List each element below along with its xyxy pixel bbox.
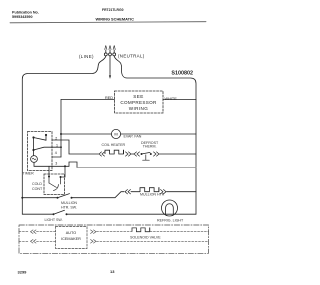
timer contact node a — [32, 136, 34, 138]
svg-text:TIMER: TIMER — [23, 171, 35, 175]
wire timer motor lead — [34, 162, 52, 166]
power cord plug prong GROUND — [109, 46, 112, 56]
connector chevrons defrost row left — [99, 152, 105, 156]
cold control box — [44, 174, 65, 195]
wire — [37, 240, 56, 242]
connector chevrons row B left — [31, 240, 37, 244]
cold control switch mechanism — [49, 177, 61, 191]
wire neutral return long run — [77, 167, 196, 169]
svg-text:3299: 3299 — [18, 270, 28, 275]
wire light row — [22, 213, 53, 215]
wire — [132, 153, 135, 155]
icemaker option boundary box — [19, 225, 209, 253]
timer contact node b — [45, 134, 47, 136]
solenoid valve coil — [132, 228, 150, 232]
wire compressor row right — [163, 99, 196, 101]
wire neutral return jog — [65, 162, 77, 168]
timer contact node c — [32, 149, 34, 151]
svg-text:(LINE): (LINE) — [79, 54, 94, 59]
svg-text:5995343590: 5995343590 — [12, 15, 33, 19]
wire cold control left riser — [48, 166, 50, 176]
svg-text:EVAP. FAN: EVAP. FAN — [124, 135, 142, 139]
wire compressor feed vertical — [60, 100, 62, 158]
svg-text:ICEMAKER: ICEMAKER — [61, 237, 81, 241]
svg-text:THERM.: THERM. — [143, 144, 157, 148]
svg-text:WIRING SCHEMATIC: WIRING SCHEMATIC — [96, 17, 135, 22]
light switch — [53, 210, 68, 215]
svg-text:SOLENOID VALVE: SOLENOID VALVE — [130, 236, 161, 240]
connector chevrons row A right — [91, 230, 97, 234]
svg-text:3: 3 — [55, 161, 57, 165]
wire timer terminal 1 internal — [34, 147, 53, 150]
wire terminal 1 stub — [52, 146, 61, 148]
svg-text:COLD: COLD — [32, 182, 42, 186]
compressor box — [115, 91, 164, 113]
svg-text:CONT: CONT — [32, 187, 43, 191]
svg-text:COMPRESSOR: COMPRESSOR — [120, 100, 157, 105]
wire terminal 2 to defrost heater — [52, 140, 99, 154]
wire defrost row right — [160, 153, 197, 155]
wire NEUTRAL rail and right bus — [114, 56, 196, 214]
evap fan motor M1 — [111, 129, 120, 138]
wire — [131, 191, 140, 193]
wire mullion row right — [167, 191, 197, 193]
wire icemaker row A right — [150, 231, 209, 233]
node junction cold control tap — [64, 165, 66, 167]
wire timer internal stub — [45, 135, 47, 140]
svg-text:M: M — [114, 132, 117, 137]
wire terminal 3 row — [52, 165, 65, 167]
publication number text — [12, 10, 39, 18]
svg-text:Publication No.: Publication No. — [12, 10, 39, 14]
node junction terminal 1 — [60, 146, 62, 148]
connector chevrons defrost row right — [154, 152, 160, 156]
wire icemaker row A left — [19, 231, 29, 233]
wire light row right — [67, 213, 197, 215]
header rule — [10, 22, 206, 23]
wire terminal 4 stub — [52, 156, 61, 158]
power cord plug prong NEUTRAL — [113, 46, 116, 56]
mullion heater switch — [57, 194, 73, 199]
label COLD CONT — [32, 182, 43, 191]
wire LINE rail and left bus — [22, 56, 106, 214]
svg-text:LIGHT SW.: LIGHT SW. — [45, 218, 63, 222]
svg-text:13: 13 — [110, 269, 115, 274]
refrigerator lamp — [162, 200, 178, 216]
node junction evap fan tap — [60, 133, 62, 135]
wire — [37, 231, 56, 233]
wire icemaker row B right — [97, 240, 209, 242]
timer motor M2 — [31, 156, 38, 163]
cold control contact right — [60, 176, 62, 178]
connector chevrons after heater — [126, 152, 132, 156]
wire cold control right riser — [61, 166, 66, 177]
svg-text:FRT21TLRG0: FRT21TLRG0 — [102, 8, 124, 12]
wire mullion row middle — [72, 192, 125, 198]
svg-text:AUTO: AUTO — [66, 231, 77, 235]
defrost coil heater element — [105, 150, 124, 154]
icemaker box — [56, 227, 88, 249]
cold control contact left — [48, 176, 50, 178]
wire ground lead with down arrow — [109, 56, 111, 75]
defrost thermostat — [141, 152, 152, 160]
mullion heater element — [140, 188, 159, 192]
svg-text:RED: RED — [105, 96, 113, 100]
wire evap fan row left — [61, 133, 111, 135]
svg-text:SEE: SEE — [133, 94, 143, 99]
label DEFROST THERM. — [141, 141, 159, 149]
connector chevrons before thermostat — [134, 152, 140, 156]
connector chevrons row A left — [31, 230, 37, 234]
wire compressor row left — [61, 99, 115, 101]
svg-text:WHITE: WHITE — [165, 97, 178, 101]
svg-text:4: 4 — [55, 151, 57, 155]
wire evap fan row right — [121, 133, 196, 135]
wire timer internal vertical — [33, 138, 35, 156]
svg-text:COIL HEATER: COIL HEATER — [102, 143, 126, 147]
timer switch blade — [34, 138, 47, 141]
connector chevrons row B right — [91, 240, 97, 244]
connector chevrons mullion right — [161, 190, 167, 194]
node junction mullion row tap — [21, 197, 23, 199]
svg-text:(NEUTRAL): (NEUTRAL) — [118, 54, 145, 59]
connector chevrons mullion left — [125, 190, 131, 194]
timer box — [28, 132, 53, 171]
svg-text:S100802: S100802 — [171, 71, 193, 77]
power cord plug prong LINE — [104, 46, 107, 56]
label MULLION HTR. SW. — [61, 201, 77, 209]
svg-text:REFRIG. LIGHT: REFRIG. LIGHT — [157, 219, 184, 223]
svg-text:HTR. SW.: HTR. SW. — [61, 206, 77, 210]
svg-text:WIRING: WIRING — [129, 106, 149, 111]
wire icemaker row B left — [19, 240, 29, 242]
wire mullion row left — [22, 197, 57, 199]
wire icemaker row A middle — [97, 231, 132, 233]
